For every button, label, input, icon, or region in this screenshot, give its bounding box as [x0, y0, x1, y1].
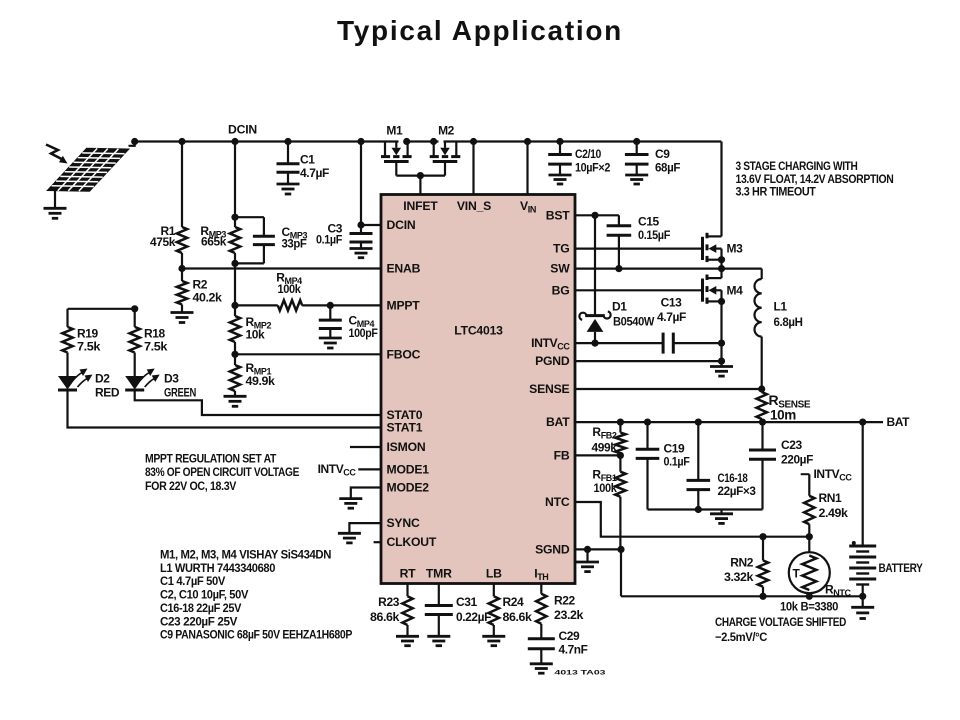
svg-text:665k: 665k: [201, 235, 227, 249]
svg-text:C16-18: C16-18: [718, 471, 749, 485]
svg-text:7.5k: 7.5k: [77, 340, 101, 354]
svg-text:C2, C10 10µF, 50V: C2, C10 10µF, 50V: [160, 588, 248, 602]
svg-text:R24: R24: [503, 595, 525, 609]
svg-text:LB: LB: [486, 567, 502, 581]
svg-text:C15: C15: [638, 215, 660, 229]
svg-text:D2: D2: [95, 372, 110, 386]
svg-text:4.7µF: 4.7µF: [657, 310, 686, 324]
svg-text:B0540W: B0540W: [613, 315, 655, 329]
svg-text:R22: R22: [554, 594, 576, 608]
svg-text:M3: M3: [727, 242, 744, 256]
svg-text:RT: RT: [400, 567, 417, 581]
svg-text:PGND: PGND: [535, 354, 570, 368]
svg-text:C23: C23: [781, 438, 803, 452]
svg-text:M2: M2: [438, 124, 455, 138]
svg-text:L1: L1: [774, 300, 788, 314]
svg-text:L1 WURTH 7443340680: L1 WURTH 7443340680: [160, 561, 276, 575]
svg-text:C1 4.7µF 50V: C1 4.7µF 50V: [160, 574, 225, 588]
svg-text:LTC4013: LTC4013: [454, 324, 503, 338]
svg-text:C9 PANASONIC 68µF 50V EEHZA1H6: C9 PANASONIC 68µF 50V EEHZA1H680P: [160, 628, 352, 642]
svg-text:2.49k: 2.49k: [819, 506, 849, 520]
svg-text:0.1µF: 0.1µF: [664, 455, 690, 469]
svg-text:BST: BST: [546, 208, 571, 222]
svg-text:SW: SW: [550, 262, 570, 276]
svg-text:BG: BG: [552, 283, 570, 297]
svg-text:22µF×3: 22µF×3: [718, 484, 757, 498]
svg-text:NTC: NTC: [545, 495, 570, 509]
svg-text:RED: RED: [95, 386, 120, 400]
svg-text:CHARGE VOLTAGE SHIFTED: CHARGE VOLTAGE SHIFTED: [715, 615, 847, 629]
svg-text:C31: C31: [456, 595, 478, 609]
svg-text:C19: C19: [664, 442, 686, 456]
svg-text:100k: 100k: [278, 282, 302, 296]
svg-text:M1, M2, M3, M4 VISHAY SiS434DN: M1, M2, M3, M4 VISHAY SiS434DN: [160, 548, 331, 562]
svg-text:RN1: RN1: [819, 491, 843, 505]
svg-text:MODE2: MODE2: [387, 481, 430, 495]
svg-text:10µF×2: 10µF×2: [575, 161, 611, 175]
svg-text:86.6k: 86.6k: [370, 610, 400, 624]
svg-text:0.15µF: 0.15µF: [638, 228, 670, 242]
svg-text:SGND: SGND: [535, 542, 570, 556]
svg-text:3.3 HR TIMEOUT: 3.3 HR TIMEOUT: [736, 185, 817, 199]
svg-text:D3: D3: [164, 372, 179, 386]
svg-text:0.22µF: 0.22µF: [456, 610, 491, 624]
svg-text:T: T: [793, 567, 801, 581]
svg-text:M1: M1: [386, 124, 403, 138]
svg-text:TMR: TMR: [426, 567, 452, 581]
svg-text:0.1µF: 0.1µF: [316, 233, 342, 247]
svg-text:MPPT REGULATION SET AT: MPPT REGULATION SET AT: [145, 452, 277, 466]
svg-text:INFET: INFET: [403, 199, 438, 213]
svg-text:BAT: BAT: [546, 415, 570, 429]
svg-text:RN2: RN2: [730, 556, 754, 570]
svg-text:86.6k: 86.6k: [503, 610, 533, 624]
svg-text:MODE1: MODE1: [387, 462, 430, 476]
svg-text:10k: 10k: [246, 328, 266, 342]
svg-text:DCIN: DCIN: [228, 123, 257, 137]
svg-text:4.7nF: 4.7nF: [559, 643, 588, 657]
svg-text:10m: 10m: [770, 408, 796, 423]
svg-text:83% OF OPEN CIRCUIT VOLTAGE: 83% OF OPEN CIRCUIT VOLTAGE: [145, 465, 299, 479]
svg-text:R18: R18: [144, 327, 166, 341]
svg-text:CLKOUT: CLKOUT: [387, 535, 437, 549]
svg-text:68µF: 68µF: [655, 161, 680, 175]
svg-text:10k B=3380: 10k B=3380: [780, 600, 839, 614]
svg-text:C29: C29: [559, 629, 581, 643]
svg-text:4013 TA03: 4013 TA03: [555, 671, 607, 677]
svg-text:R23: R23: [378, 595, 400, 609]
svg-text:6.8µH: 6.8µH: [774, 315, 803, 329]
svg-text:TG: TG: [553, 242, 570, 256]
svg-text:C16-18 22µF 25V: C16-18 22µF 25V: [160, 601, 241, 615]
svg-text:C1: C1: [300, 153, 315, 167]
svg-text:40.2k: 40.2k: [193, 291, 223, 305]
svg-text:100k: 100k: [594, 481, 618, 495]
svg-text:Typical Application: Typical Application: [337, 15, 623, 46]
svg-text:475k: 475k: [150, 235, 176, 249]
svg-text:SENSE: SENSE: [529, 382, 569, 396]
svg-text:C23 220µF 25V: C23 220µF 25V: [160, 614, 237, 628]
svg-text:220µF: 220µF: [781, 453, 813, 467]
svg-text:M4: M4: [727, 284, 744, 298]
svg-text:VIN_S: VIN_S: [457, 199, 491, 213]
svg-text:C13: C13: [661, 296, 683, 310]
svg-text:R2: R2: [193, 278, 208, 292]
svg-text:SYNC: SYNC: [387, 516, 420, 530]
svg-text:FOR 22V OC, 18.3V: FOR 22V OC, 18.3V: [145, 479, 236, 493]
svg-text:FBOC: FBOC: [387, 347, 421, 361]
svg-text:DCIN: DCIN: [387, 218, 416, 232]
svg-text:STAT1: STAT1: [387, 421, 423, 435]
svg-text:ISMON: ISMON: [387, 440, 426, 454]
svg-text:49.9k: 49.9k: [246, 374, 276, 388]
svg-text:C2/10: C2/10: [575, 147, 602, 161]
svg-text:−2.5mV/°C: −2.5mV/°C: [715, 630, 768, 644]
svg-text:4.7µF: 4.7µF: [300, 166, 329, 180]
svg-text:499k: 499k: [592, 441, 618, 455]
svg-text:100pF: 100pF: [349, 326, 378, 340]
svg-text:C9: C9: [655, 147, 670, 161]
svg-text:3.32k: 3.32k: [724, 570, 754, 584]
svg-text:R19: R19: [77, 327, 99, 341]
svg-text:GREEN: GREEN: [164, 386, 196, 400]
svg-text:D1: D1: [612, 300, 627, 314]
svg-text:33pF: 33pF: [282, 237, 307, 251]
svg-text:23.2k: 23.2k: [554, 608, 584, 622]
svg-text:ENAB: ENAB: [387, 262, 421, 276]
svg-text:MPPT: MPPT: [387, 298, 421, 312]
svg-text:FB: FB: [554, 448, 570, 462]
svg-text:BATTERY: BATTERY: [879, 561, 923, 575]
svg-text:7.5k: 7.5k: [144, 340, 168, 354]
svg-text:BAT: BAT: [887, 415, 911, 429]
